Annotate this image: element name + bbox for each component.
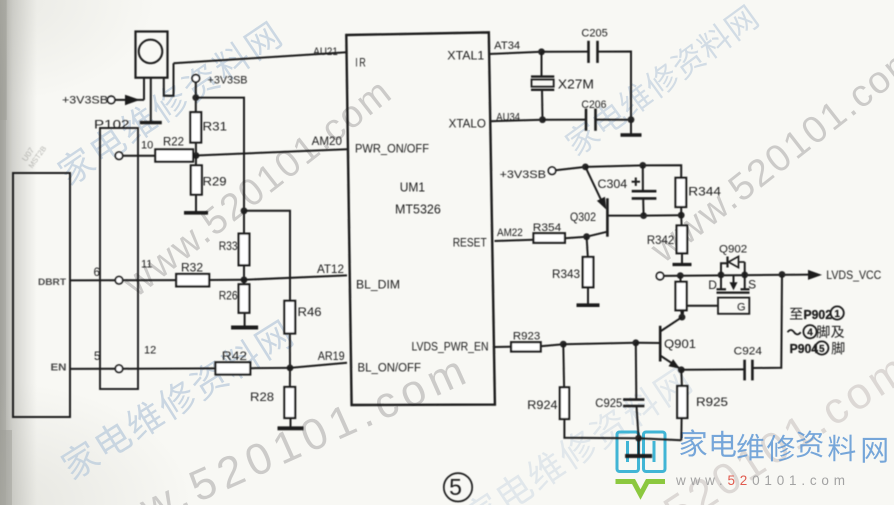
watermark url band bottom-left [63, 344, 478, 505]
wire AM20: PWR node to IC pin PWR_ON/OFF [196, 149, 347, 155]
capacitor C304 stem top [642, 165, 644, 190]
node dot Q901 emitter [678, 366, 685, 373]
svg-text:XTAL1: XTAL1 [447, 51, 484, 63]
resistor R26 [239, 284, 250, 313]
wire R46 to BL_ON node [289, 334, 291, 368]
wire to C925 node [563, 343, 636, 344]
crystal X27M bottom plate [531, 89, 554, 91]
bottom rail ground [638, 438, 640, 455]
svg-text:LVDS_VCC: LVDS_VCC [826, 270, 881, 282]
resistor R344 [676, 178, 687, 207]
wire gate box to Q901 collector node [683, 306, 719, 317]
P102 pin 12 terminal [115, 365, 122, 372]
wire AU34: IC XTALO to crystal bottom node [490, 120, 543, 122]
node dot Q302 collector [583, 233, 590, 240]
capacitor C304 bottom plate [632, 197, 657, 200]
svg-text:AU21: AU21 [313, 46, 338, 58]
wire R925 to bottom rail [680, 418, 682, 440]
gate net box G [718, 298, 749, 314]
IR receiver GND leg + ground [150, 78, 152, 122]
svg-text:R33: R33 [219, 241, 238, 253]
resistor R923 [511, 342, 541, 351]
wire DBRT to pin 11 [70, 279, 115, 281]
svg-text:C924: C924 [734, 345, 762, 357]
node dot Q901 collector [679, 314, 686, 321]
capacitor C205 [587, 41, 590, 63]
node dot C925 junction [632, 339, 639, 346]
node dot branch junction [241, 207, 248, 214]
wire collector node to R343 [587, 237, 588, 257]
crystal X27M stem bottom [541, 90, 544, 120]
wire R22 to PWR node [193, 155, 196, 157]
capacitor C924 [743, 360, 746, 381]
capacitor C304 top plate [632, 190, 657, 193]
wire AT34: IC XTAL1 to crystal node [489, 52, 542, 54]
node dot rail at Q302 emitter [582, 164, 589, 171]
Q302 emitter arrowhead [597, 197, 606, 210]
svg-text:+3V3SB: +3V3SB [500, 169, 546, 181]
mosfet Q902 body diode cathode bar [726, 257, 728, 268]
resistor R29 [191, 165, 202, 194]
capacitor C206 [585, 109, 588, 131]
svg-text:C304: C304 [598, 179, 628, 191]
wire AT12: BL_DIM node to IC pin BL_DIM [244, 275, 347, 279]
svg-text:BL_ON/OFF: BL_ON/OFF [358, 362, 422, 374]
capacitor C304 plus sign [632, 181, 640, 183]
wire to Q901 base [636, 342, 660, 344]
mosfet Q902 substrate arrow [733, 275, 735, 285]
bottom rail right segment [639, 438, 682, 440]
svg-text:R924: R924 [527, 400, 558, 412]
mosfet Q902 body diode triangle [729, 256, 739, 267]
mosfet Q902 source contact [744, 275, 746, 289]
wire BL_DIM node to R26 [243, 280, 245, 285]
Q302 base rail to R342 column [607, 214, 681, 216]
resistor R28 [284, 387, 295, 418]
+3V3SB pullup terminal [192, 75, 199, 82]
wire LVDS_PWR_EN: IC to R923 [495, 346, 512, 348]
svg-text:10: 10 [141, 140, 153, 152]
wire R31 bottom to PWR node [195, 143, 197, 156]
wire R923 to R924 node [541, 344, 564, 346]
crystal X27M stem top [541, 52, 543, 76]
LVDS_VCC rail [664, 275, 809, 276]
svg-text:AM22: AM22 [497, 227, 523, 239]
svg-text:+3V3SB: +3V3SB [62, 94, 108, 106]
node dot rail at C304 [639, 162, 646, 169]
wire pin12 to R42 [123, 367, 216, 369]
svg-text:AR19: AR19 [318, 351, 345, 363]
watermark cjk band top-left [54, 19, 283, 188]
watermark url band bottom-right [553, 343, 894, 505]
svg-text:www.520101.com: www.520101.com [675, 473, 850, 488]
transistor Q302 base bar [606, 198, 609, 236]
svg-text:EN: EN [51, 363, 67, 374]
wire node to C206 [543, 119, 587, 121]
wire node to R924 [562, 344, 565, 387]
svg-text:+3V3SB: +3V3SB [208, 75, 248, 87]
wire C925 node to top plate [635, 343, 638, 400]
svg-text:R46: R46 [298, 307, 322, 319]
node dot BL_ON junction [287, 365, 294, 372]
svg-text:4: 4 [807, 328, 813, 339]
wire pin11 to R32 [123, 279, 176, 281]
annotation to P902/P904 [788, 306, 845, 355]
svg-text:G: G [737, 301, 746, 313]
svg-text:Q901: Q901 [664, 339, 696, 351]
node dot R924 junction [560, 341, 567, 348]
node dot xtal ground column [628, 116, 635, 123]
svg-text:DBRT: DBRT [38, 277, 66, 288]
wire AU21: IR out to IC pin IR [174, 52, 347, 63]
wire R924 to bottom rail [564, 419, 638, 438]
R343 ground [587, 287, 589, 304]
svg-text:R28: R28 [250, 392, 274, 404]
svg-text:PWR_ON/OFF: PWR_ON/OFF [355, 143, 429, 155]
wire R344 bottom [680, 207, 682, 215]
svg-text:X27M: X27M [558, 78, 594, 92]
wire pass resistor to collector node [680, 310, 683, 317]
svg-text:P902: P902 [804, 307, 833, 322]
svg-text:AT34: AT34 [494, 40, 520, 52]
svg-text:R343: R343 [552, 269, 580, 281]
transistor Q901 base bar [659, 326, 662, 362]
svg-text:Q302: Q302 [570, 212, 596, 224]
node dot at R31 top [192, 94, 199, 101]
wire C205 to right column [598, 52, 632, 120]
resistor R925 [677, 386, 687, 418]
node dot rail at C924 column [779, 271, 786, 278]
svg-text:D: D [708, 278, 717, 292]
R342 ground [681, 253, 683, 263]
R28 ground [290, 418, 292, 427]
wire R42 to BL_ON node [250, 367, 290, 369]
svg-text:IR: IR [355, 56, 367, 70]
wire node to C205 [542, 51, 589, 53]
resistor R31 [190, 112, 201, 142]
watermark cjk band bottom-center [460, 364, 694, 505]
svg-text:MT5326: MT5326 [395, 203, 441, 217]
IR receiver OUT leg jog [164, 63, 174, 96]
capacitor C304 stem bottom [642, 198, 644, 215]
node dot XTALO [539, 116, 546, 123]
svg-text:6: 6 [94, 267, 100, 279]
resistor R342 [677, 226, 688, 254]
wire C924 to LVDS rail column [752, 275, 782, 369]
transistor Q302 emitter wire [585, 167, 604, 206]
svg-text:AT12: AT12 [317, 264, 344, 276]
wire BL_ON node to R28 [289, 368, 291, 387]
+3V3SB input terminal [108, 96, 115, 103]
svg-text:BL_DIM: BL_DIM [356, 279, 400, 291]
resistor R32 [176, 274, 209, 286]
resistor R354 [534, 233, 565, 243]
+3V3SB rail to R344 [585, 165, 681, 178]
svg-text:LVDS_PWR_EN: LVDS_PWR_EN [412, 341, 489, 353]
svg-text:C206: C206 [581, 99, 606, 111]
IR receiver VCC leg [143, 78, 145, 100]
svg-text:1: 1 [834, 309, 840, 320]
svg-text:R32: R32 [181, 262, 203, 274]
svg-text:R923: R923 [513, 330, 540, 342]
mosfet Q902 S node dot [741, 272, 748, 279]
svg-text:R26: R26 [219, 291, 238, 303]
LVDS supply input terminal [656, 272, 663, 279]
Q901 collector wire [660, 317, 682, 331]
node dot rail at pass resistor [677, 272, 684, 279]
svg-text:R925: R925 [696, 397, 728, 409]
left page-edge shading [0, 0, 37, 505]
resistor R46 [284, 301, 295, 334]
pass resistor between LVDS rail and Q901 [676, 282, 687, 311]
wire emitter to R925 [680, 370, 683, 386]
svg-text:XTALO: XTALO [449, 119, 486, 131]
mosfet Q902 gate plate [717, 292, 750, 294]
svg-text:RESET: RESET [453, 237, 487, 249]
svg-text:R31: R31 [203, 120, 228, 134]
crystal X27M body [532, 80, 554, 87]
svg-text:R22: R22 [163, 136, 184, 148]
watermark url band right [642, 36, 894, 272]
left source connector block [13, 173, 70, 417]
watermark cjk band bottom-left [58, 317, 295, 482]
svg-text:C205: C205 [581, 27, 607, 39]
wire R354 to Q302 collector node [565, 237, 587, 239]
R26 ground [244, 313, 246, 327]
resistor R343 [583, 257, 594, 287]
node dot base rail at C304 [640, 212, 647, 219]
wire rail to R342 [680, 215, 682, 225]
mosfet Q902 body diode leads [721, 263, 727, 275]
svg-text:12: 12 [144, 345, 156, 357]
resistor R22 [155, 149, 193, 161]
left block faint silk text [19, 139, 48, 170]
xtal column ground [630, 120, 632, 134]
IR receiver lens circle [139, 40, 163, 64]
wire PWR node to R29 [195, 156, 197, 166]
wire node to crossover branch [196, 98, 244, 211]
IR receiver U? [136, 32, 168, 78]
site logo wordmark [680, 429, 887, 463]
wire terminal to rail [556, 167, 586, 170]
mosfet Q902 D node dot [718, 272, 725, 279]
capacitor C925 [623, 398, 644, 401]
+3V3SB input arrow wire [115, 99, 144, 101]
wire pin10 to R22 [123, 155, 156, 157]
crystal X27M top plate [531, 75, 554, 77]
wire AR19: node to IC pin BL_ON/OFF [290, 363, 347, 368]
wire C925 bottom plate to rail [637, 406, 639, 438]
resistor R33 [239, 234, 250, 266]
watermark cjk band top-right [562, 2, 761, 158]
site logo book icon [617, 432, 665, 472]
wire rail to pass resistor [679, 276, 681, 282]
svg-text:R42: R42 [222, 351, 247, 363]
Q901 emitter arrowhead [669, 359, 681, 369]
svg-text:R344: R344 [688, 185, 721, 199]
wire R32 to BL_DIM node [209, 279, 244, 281]
svg-text:Q902: Q902 [719, 243, 747, 255]
wire emitter node to C924 [681, 368, 744, 370]
node dot BL_DIM junction [241, 276, 248, 283]
wire AM22: IC RESET to R354 [495, 240, 534, 241]
resistor R924 [560, 387, 569, 419]
wire terminal to R31 [195, 82, 197, 113]
wire branch to R46 column [244, 211, 290, 301]
transistor Q302 collector wire [587, 232, 608, 237]
svg-text:C925: C925 [595, 398, 622, 410]
svg-text:5: 5 [819, 344, 825, 355]
svg-text:AM20: AM20 [312, 136, 342, 148]
IC UM1 MT5326 body [346, 32, 495, 405]
node dot bottom rail ground [635, 435, 642, 442]
svg-text:R29: R29 [203, 174, 227, 188]
wire R33 to BL_DIM node [243, 265, 245, 280]
scan corner shading [0, 0, 1, 1]
P102 pin 10 terminal [115, 152, 122, 159]
resistor R42 [216, 362, 251, 374]
+3V3SB input arrowhead [125, 95, 140, 106]
wire node to R33 [243, 211, 245, 234]
svg-text:11: 11 [141, 259, 152, 271]
node dot XTAL1 [538, 48, 545, 55]
+3V3SB reset terminal [548, 167, 555, 174]
P102 pin 11 terminal [115, 277, 122, 284]
Q901 emitter wire [660, 356, 679, 369]
watermark url band left [115, 70, 400, 306]
wire EN to pin 12 [70, 368, 115, 370]
svg-text:5: 5 [449, 474, 462, 500]
mosfet Q902 drain contact [720, 275, 722, 289]
LVDS_VCC arrowhead [808, 270, 822, 280]
svg-text:R342: R342 [647, 235, 674, 247]
node dot base rail at R344 bottom [678, 212, 685, 219]
connector P102 box [100, 128, 138, 389]
site logo book underline [616, 482, 666, 495]
svg-text:AU34: AU34 [496, 111, 520, 123]
sheet number circled 5 [444, 473, 472, 501]
svg-text:R354: R354 [533, 222, 562, 234]
wire C206 to right column node [596, 119, 632, 121]
R29 ground [195, 195, 197, 212]
svg-text:UM1: UM1 [400, 180, 425, 194]
node dot PWR junction [193, 152, 200, 159]
